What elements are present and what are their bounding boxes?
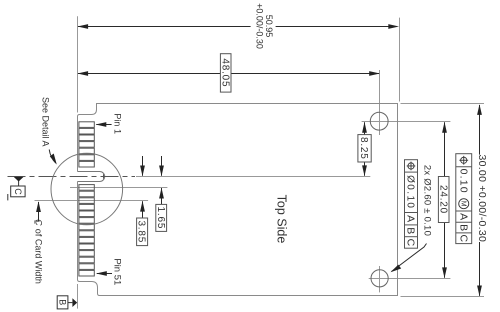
svg-text:3.85: 3.85 [136, 220, 147, 243]
svg-text:Top Side: Top Side [275, 195, 289, 244]
svg-text:8.25: 8.25 [358, 137, 369, 160]
svg-text:Pin 51: Pin 51 [112, 258, 123, 285]
svg-text:48.05: 48.05 [219, 58, 230, 87]
svg-text:See Detail A: See Detail A [41, 97, 51, 147]
svg-text:Pin 1: Pin 1 [113, 113, 123, 134]
svg-text:A: A [457, 213, 469, 220]
svg-text:M: M [459, 201, 466, 207]
svg-text:0.10: 0.10 [457, 169, 469, 194]
svg-text:B: B [457, 224, 469, 231]
svg-text:1.65: 1.65 [155, 207, 166, 230]
svg-text:A: A [405, 215, 417, 222]
svg-text:2x Ø2.60 ± 0.10: 2x Ø2.60 ± 0.10 [421, 165, 432, 236]
svg-text:B: B [405, 227, 417, 234]
svg-text:C: C [13, 188, 23, 195]
svg-text:Ø0.10: Ø0.10 [405, 175, 416, 209]
svg-text:24.20: 24.20 [437, 185, 448, 214]
svg-text:C: C [457, 234, 469, 242]
svg-text:C: C [405, 239, 417, 247]
svg-text:30.00 +0.00/-0.30: 30.00 +0.00/-0.30 [476, 154, 488, 242]
svg-text:CL of Card Width: CL of Card Width [32, 219, 43, 284]
svg-text:B: B [58, 299, 68, 305]
svg-text:50.95+0.00/-0.30: 50.95+0.00/-0.30 [255, 3, 275, 49]
